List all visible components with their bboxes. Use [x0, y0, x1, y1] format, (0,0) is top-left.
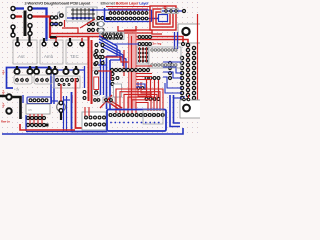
black power trace: [0, 96, 21, 119]
component FB1 outline: [161, 9, 179, 14]
wire blue center left: [98, 64, 106, 66]
pads center col2: [111, 73, 114, 86]
wire red col spine: [187, 44, 189, 101]
blue loop L1: [159, 15, 168, 22]
pads cluster center 2col: [95, 44, 104, 65]
relay K1 outline Ant: [13, 40, 37, 64]
svg-text:+5v: +5v: [2, 90, 6, 95]
wires red fan bottom: [116, 89, 163, 113]
wire red comb feeder1: [106, 6, 150, 8]
black bar JP1: [24, 11, 27, 37]
res R4 outline: [103, 97, 115, 103]
header J6 outline: [143, 110, 163, 124]
pad Q4: [60, 14, 63, 17]
crystal Y1 ring: [57, 103, 66, 112]
pads center top: [104, 35, 123, 38]
wire blue U3 bottom: [67, 17, 92, 19]
black bar JP2: [12, 29, 14, 35]
wire blue horiz 70: [54, 69, 85, 71]
wire red J2: [30, 17, 50, 39]
wire red bus vert A: [88, 37, 90, 101]
svg-text:U5: U5: [28, 108, 32, 112]
wire red BX2 stub: [188, 95, 190, 98]
red loop outer L1: [150, 6, 176, 30]
wires blue mid right: [136, 84, 145, 90]
wire red J2b: [50, 38, 56, 43]
pads U8: [56, 79, 79, 82]
IC U3 outline: [66, 7, 97, 21]
white box BX1: [178, 24, 202, 43]
wire blue J2: [30, 9, 47, 42]
wire red bus1: [50, 33, 104, 35]
transistor Q1 outline: [14, 75, 32, 84]
pads J3 row1: [85, 116, 106, 119]
black bar JP3: [29, 27, 31, 34]
red loop mid L1: [153, 9, 173, 27]
pad square J5: [106, 17, 109, 20]
black stubs into relays: [18, 36, 71, 42]
cap C12 outline: [114, 84, 122, 97]
wire red below spiral: [152, 30, 162, 34]
wires red J3 stubs: [85, 107, 89, 116]
pads FB1: [165, 10, 177, 12]
mounting hole H1: [98, 21, 103, 26]
wire red bus4: [124, 32, 152, 34]
wire blue pair spiral down B: [177, 32, 179, 49]
wire red Y1 feed: [60, 84, 62, 101]
wires red U9 stubs: [140, 47, 147, 62]
wire blue big L: [7, 68, 52, 89]
pads long row y70: [111, 69, 150, 72]
pads C9: [94, 53, 97, 65]
relay K3 outline TEC: [66, 40, 89, 64]
wire red inside band: [131, 36, 133, 110]
pad Y1 top: [59, 101, 63, 105]
pads big row: [14, 69, 78, 74]
wire red center vert: [123, 50, 125, 76]
wire red comb feeder2: [108, 8, 148, 10]
wire red L bm: [76, 78, 101, 128]
black stubs big pads: [17, 66, 76, 69]
wire red center h: [98, 71, 111, 80]
IC U8 outline: [54, 76, 80, 88]
resistor pack RN1 outline: [93, 70, 101, 96]
transistor Q4 outline: [57, 12, 59, 20]
pads U9 grid: [139, 48, 148, 62]
wire blue vert 84: [84, 66, 86, 88]
wire blue vert c2: [103, 60, 105, 95]
pad FB1 out: [183, 10, 186, 13]
pad C12 top: [116, 77, 119, 80]
pads J2: [29, 99, 48, 102]
wire blue u5 a: [22, 95, 24, 103]
IC U5 outline: [26, 104, 50, 114]
svg-text:+3v: +3v: [14, 88, 20, 92]
pads J5 row2: [109, 17, 148, 20]
wire blue vert pair B: [109, 60, 111, 109]
wire blue U3 top: [90, 9, 105, 11]
board background: [0, 0, 200, 137]
mounting hole H2: [98, 28, 103, 33]
wire red bottom bus: [20, 124, 75, 130]
pad power big 2: [6, 108, 11, 113]
vias J4 inner: [110, 122, 160, 124]
wire blue vert pair L1: [50, 68, 52, 105]
svg-text:Amb: Amb: [44, 54, 54, 59]
pads J3 row2: [85, 123, 106, 126]
white box BX2: [180, 100, 202, 118]
wires blue right feeds: [163, 62, 182, 98]
pads right of band1: [138, 36, 151, 39]
pads quad top: [145, 77, 160, 80]
pads U4 row2: [102, 37, 122, 39]
connector J5 outline: [105, 10, 152, 22]
relay K2 outline Amb: [40, 40, 63, 64]
pad center jog: [99, 56, 102, 59]
wires red U5 stubs: [30, 114, 42, 124]
pads right of band2: [138, 43, 151, 46]
wire blue vert pair L2: [53, 70, 55, 104]
pads J4: [109, 114, 164, 117]
pad Y1 bottom: [59, 109, 63, 113]
wire blue above Y1 b: [64, 99, 70, 101]
pads col P2: [186, 43, 189, 101]
wire red TEC top: [56, 36, 104, 38]
svg-text:+5v: +5v: [2, 103, 6, 108]
IC U4 outline: [100, 32, 124, 40]
pads cluster C1 row2: [50, 22, 62, 25]
pads K3: [68, 42, 84, 46]
wire red U conn: [118, 26, 136, 31]
pads col P3: [192, 46, 195, 99]
pads grid G1 row3: [88, 29, 105, 32]
pads U6 bottom: [151, 64, 177, 66]
wire blue L bm: [72, 92, 108, 132]
wire red C1: [64, 20, 66, 27]
power band edge left: [128, 34, 130, 108]
pads R4: [105, 99, 113, 102]
pads staircase: [137, 87, 144, 90]
pads J5 row1: [109, 12, 148, 15]
wire red vert right edge: [197, 14, 199, 108]
pads col P4: [169, 62, 172, 80]
power band edge right: [135, 34, 137, 108]
pads BX2 top: [183, 98, 190, 100]
wire blue vert c1: [100, 58, 102, 95]
wire blue J5 left: [104, 8, 106, 21]
pad RN1 bottom: [95, 91, 98, 94]
pads quad bottom: [145, 98, 160, 101]
connector J4 outline: [107, 110, 166, 132]
svg-text:Pwr In: Pwr In: [1, 120, 10, 124]
pads U3 row2: [72, 13, 94, 15]
wire blue pair spiral down A: [174, 32, 176, 49]
wire red bus right1: [136, 37, 183, 45]
pads U5 row2: [27, 124, 46, 127]
wire blue bottom bus2: [26, 131, 71, 133]
cap C9 outline: [91, 52, 100, 68]
wire red C1b: [62, 28, 78, 34]
svg-text:TEC: TEC: [70, 54, 79, 59]
pads col P1: [180, 56, 183, 99]
svg-text:2-World I/O Daughterboard PCB: 2-World I/O Daughterboard PCB Layout: [25, 1, 92, 5]
pads Q2: [36, 79, 49, 82]
wire blue L br: [170, 95, 180, 127]
pads U8 b: [58, 84, 70, 86]
transistor Q2 outline: [34, 75, 52, 84]
pads JP-A column: [11, 7, 15, 38]
power band pink: [129, 34, 137, 108]
svg-text:+5v: +5v: [2, 70, 6, 75]
hole ring BX2: [183, 105, 190, 112]
wire red bus vert B: [91, 40, 93, 104]
svg-text:Ant: Ant: [18, 54, 25, 59]
wires blue diagonal bundle: [99, 36, 126, 70]
wire blue BX2 stub: [183, 96, 185, 98]
wire red diag center: [100, 95, 112, 108]
wire red tec stub: [81, 38, 83, 43]
pad red bend: [182, 43, 185, 46]
pads K2: [42, 42, 58, 46]
wire blue J1: [13, 7, 24, 9]
IC U6 outline: [149, 47, 181, 68]
wires red diag into fan: [104, 99, 122, 110]
wire blue FB1: [162, 10, 184, 12]
header J3 outline: [82, 112, 106, 130]
red via FB1: [164, 7, 166, 9]
wire red diag U3: [80, 19, 95, 28]
pads U3 row3: [72, 17, 94, 19]
pads below RN1: [94, 99, 100, 102]
pads cluster C1 row1: [50, 16, 57, 19]
pad RN1 top: [95, 71, 98, 74]
black bar Y1: [60, 112, 62, 120]
wire blue above Y1: [52, 100, 58, 102]
hole ring BX1: [182, 28, 189, 35]
wire blue bottom bus: [2, 128, 183, 134]
resistor R2 outline: [94, 77, 99, 90]
pads K1: [16, 42, 32, 46]
wire blue under band: [112, 43, 139, 45]
wire blue L br2: [174, 95, 181, 123]
pads U3 row1: [72, 9, 94, 11]
IC U9 outline: [137, 46, 148, 64]
pad power big 1: [6, 94, 11, 99]
wire blue C1: [52, 23, 58, 25]
wire blue vert pair A: [106, 56, 108, 109]
wire red J1: [13, 15, 22, 17]
pads U6 top: [151, 49, 177, 51]
wire blue u5 b: [25, 115, 27, 131]
pads grid G1 row1: [97, 17, 104, 20]
pads grid G1 row2: [88, 23, 105, 26]
svg-text:Ethernet Bottom Layer Layer: Ethernet Bottom Layer Layer: [101, 1, 150, 5]
pad square U5: [46, 124, 49, 127]
wire blue bus conn: [104, 18, 158, 20]
pads JP-B column: [28, 7, 32, 36]
wires red comb stubs: [111, 9, 147, 12]
wire red above row: [136, 65, 152, 67]
wire red center jog: [100, 57, 129, 62]
wire red bus3: [124, 29, 152, 31]
wires red staircase mid: [136, 74, 152, 97]
wires blue bundle down: [64, 96, 67, 132]
red loop inner L1: [156, 12, 170, 24]
pads U5 row1: [27, 117, 46, 120]
wires red quad verticals: [147, 79, 159, 98]
pads col 84: [83, 91, 86, 100]
pads Q1: [16, 79, 29, 82]
wire red right of Y1: [71, 95, 73, 103]
pads U4 row1: [102, 33, 122, 35]
black bar above Amb: [50, 36, 57, 38]
header J2 outline: [27, 97, 52, 104]
wire red bus right2: [136, 40, 188, 45]
